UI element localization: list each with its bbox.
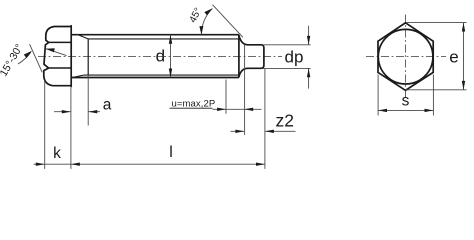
dp extension lines: [263, 45, 311, 69]
hex inner edge 1: [49, 41, 71, 43]
svg-text:dp: dp: [285, 48, 304, 67]
15-30 deg leader line: [30, 44, 43, 72]
arrow on 15-30 arc: [24, 51, 32, 58]
u dimension line: [213, 108, 262, 110]
head chamfer leader arrow: [46, 49, 67, 56]
u extension line left: [225, 80, 227, 114]
hexagon (end view): [378, 23, 433, 91]
shared extension line (u right / z2 left): [244, 45, 246, 135]
svg-text:s: s: [402, 93, 410, 110]
thread major diameter lines: [71, 35, 239, 78]
chamfer to dog point top: [239, 35, 248, 45]
e dimension line: [463, 23, 465, 90]
end view: horizontal center line: [366, 56, 446, 58]
hex inner edge 2: [49, 67, 72, 69]
dog point: [248, 45, 264, 69]
15-30 arc: [18, 52, 31, 64]
arrow on 45 arc lower end: [199, 26, 203, 35]
k extension line left: [44, 81, 46, 169]
svg-text:k: k: [53, 145, 61, 162]
chamfer circle: [378, 29, 433, 84]
s dimension line: [378, 109, 433, 111]
s extension lines: [378, 75, 433, 116]
k / l dimension line: [34, 163, 265, 165]
d dimension: [170, 35, 172, 78]
dp dimension line with outside arrows: [308, 26, 310, 89]
45 deg arc: [201, 8, 212, 34]
hex head side view outline: [44, 26, 71, 87]
chamfer to dog point bottom: [239, 68, 248, 77]
svg-text:a: a: [103, 96, 112, 113]
a extension line right: [87, 75, 89, 125]
a dimension line with outside arrows: [54, 111, 100, 113]
full thread boundary vertical: [87, 39, 89, 75]
thread minor diameter lines: [83, 39, 239, 75]
svg-text:d: d: [156, 47, 165, 66]
z2 / l right extension line: [264, 69, 266, 169]
45 deg leader line: [213, 5, 243, 38]
svg-text:l: l: [169, 144, 173, 161]
thread end face: [238, 35, 240, 78]
center line of bolt (side view): [38, 55, 282, 57]
e extension lines: [406, 23, 467, 90]
arrow on 45 arc upper end: [204, 8, 212, 15]
a extension line left (bearing face): [70, 86, 72, 169]
svg-text:e: e: [449, 48, 458, 67]
svg-text:z2: z2: [276, 110, 294, 130]
z2 dimension: [231, 130, 296, 132]
end view: vertical center line: [405, 15, 407, 100]
thread runout diagonals: [73, 35, 88, 77]
